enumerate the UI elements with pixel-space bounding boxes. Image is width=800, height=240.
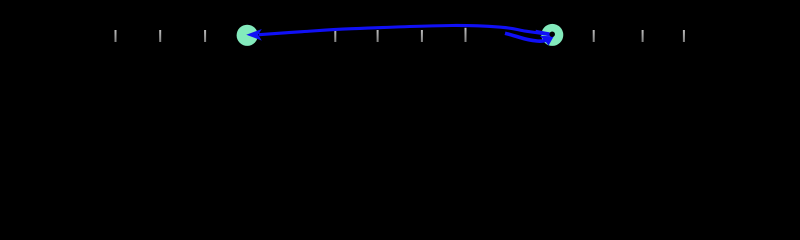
arrowhead at right point center xyxy=(540,36,554,46)
tick 7 xyxy=(465,28,467,42)
tick 2 xyxy=(159,30,161,42)
thick arc entry into right point xyxy=(536,32,550,35)
point P1 (left dot) xyxy=(237,25,258,46)
tick 4 xyxy=(334,30,336,42)
tick 3 xyxy=(204,30,206,42)
black hole in right dot xyxy=(549,31,555,37)
tick 5 xyxy=(377,30,379,42)
point P2 (right dot) xyxy=(541,24,563,46)
loop tail arrow (under right point) xyxy=(505,33,546,41)
arrow main arc (right point to left point) xyxy=(259,25,551,34)
arrowhead at left point xyxy=(246,29,261,41)
tick 1 xyxy=(115,30,117,42)
number line canvas xyxy=(0,0,800,80)
tick 9 xyxy=(642,30,644,42)
tick 8 xyxy=(593,30,595,42)
tick 6 xyxy=(421,30,423,42)
tick 10 xyxy=(683,30,685,42)
